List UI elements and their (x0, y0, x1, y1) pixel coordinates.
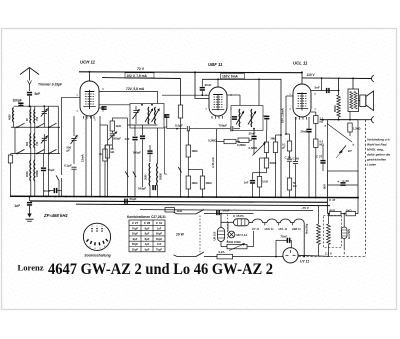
resistor R16 2k (346, 211, 356, 215)
wire OT bottom (349, 112, 351, 120)
svg-text:1kΩ: 1kΩ (116, 124, 122, 128)
svg-text:1kΩ: 1kΩ (177, 209, 183, 213)
switch bus 1 (11, 126, 60, 128)
svg-text:3k: 3k (99, 152, 103, 156)
resistor R7 1M (200, 176, 204, 189)
mech link dashed 2 (227, 215, 229, 244)
wire speaker magnet link (359, 100, 360, 102)
svg-text:30000: 30000 (160, 172, 163, 180)
wire right column b (357, 198, 359, 214)
svg-text:0,1μF: 0,1μF (64, 164, 72, 168)
component table (129, 220, 165, 252)
svg-text:Lorenz: Lorenz (18, 263, 44, 273)
svg-text:b: b (353, 143, 355, 147)
svg-text:pF: pF (67, 149, 71, 153)
wire avc link (188, 169, 202, 171)
svg-text:MΩ: MΩ (320, 142, 324, 146)
svg-text:80Ω: 80Ω (330, 208, 336, 212)
dashed option line (365, 120, 367, 257)
junction dots rails (45, 196, 47, 198)
switch contact S2b (133, 172, 136, 178)
switch mains top (196, 209, 204, 214)
wire detector verticals (176, 128, 178, 130)
wire grid connection (62, 96, 81, 98)
capacitor 1nF to ground (28, 195, 30, 197)
coil L2 ant sec (33, 110, 36, 124)
svg-text:1,2kΩ: 1,2kΩ (353, 127, 361, 131)
svg-text:UCH 11: UCH 11 (80, 60, 96, 65)
svg-text:300Ω: 300Ω (270, 161, 278, 165)
switch contact tone (340, 146, 346, 153)
trimmer arrow IF1a (145, 109, 153, 123)
svg-text:100pF: 100pF (13, 99, 22, 103)
svg-text:Linien: Linien (367, 163, 376, 167)
dashed bottom line (299, 255, 366, 257)
wire det col (216, 142, 218, 197)
switch blade S2a (17, 149, 25, 153)
coil L8 osc (148, 163, 151, 186)
dial lamp (228, 231, 235, 238)
svg-text:MV 0,1A: MV 0,1A (237, 233, 248, 237)
svg-text:Verbindung a-b: Verbindung a-b (367, 138, 390, 142)
svg-text:UCL 11: UCL 11 (293, 61, 308, 66)
bus rail B (30, 201, 328, 202)
capacitor padder (142, 125, 144, 135)
wire screen column UBF (180, 79, 182, 106)
fuse F1 (217, 254, 233, 259)
svg-text:600: 600 (26, 141, 29, 146)
svg-text:1MΩ: 1MΩ (206, 181, 213, 185)
switch blade S1c (49, 123, 57, 127)
svg-text:bei 220V: bei 220V (348, 229, 351, 239)
wire UBF plate right (227, 94, 240, 96)
svg-text:0,1M: 0,1M (262, 180, 268, 184)
svg-text:540pF: 540pF (133, 151, 141, 155)
wire 110V speaker line (302, 77, 372, 80)
resistor R20 grid stop (287, 141, 291, 151)
field coil choke (338, 78, 340, 95)
svg-text:750: 750 (36, 116, 39, 121)
svg-text:1nF: 1nF (15, 204, 21, 208)
wire heater left (228, 221, 234, 223)
svg-text:6μF: 6μF (145, 226, 150, 230)
svg-text:500pF: 500pF (113, 137, 121, 141)
rectifier tube UY11 circle (283, 248, 298, 263)
bus chassis rail A (10, 196, 358, 197)
svg-text:U 15 PL: U 15 PL (233, 214, 244, 218)
svg-text:kΩ: kΩ (293, 184, 297, 188)
capacitor 50uF rail (124, 199, 126, 204)
coil L5 band2 sec (33, 134, 36, 149)
svg-text:4647 GW-AZ 2 und Lo 46 GW-AZ 2: 4647 GW-AZ 2 und Lo 46 GW-AZ 2 (48, 259, 273, 278)
capacitor grid blob (99, 107, 104, 109)
tube UBF11 (209, 87, 227, 116)
heater chain humps (253, 219, 263, 223)
svg-text:18V, 1,6mA: 18V, 1,6mA (281, 108, 285, 123)
svg-text:gestrichelten: gestrichelten (366, 158, 386, 162)
svg-text:0,3MΩ: 0,3MΩ (237, 143, 246, 147)
switch blade S2c (49, 149, 57, 153)
wire IF2 feed (258, 79, 260, 105)
resistor R18 0.1M (257, 177, 261, 188)
trimmer arrow IF1b (152, 109, 160, 123)
svg-text:700pF: 700pF (219, 123, 228, 127)
antenna (20, 68, 39, 75)
wire right column mid (48, 127, 50, 153)
svg-text:1MΩ: 1MΩ (192, 149, 199, 153)
wire +72V supply rail (79, 71, 302, 74)
svg-text:1MΩ: 1MΩ (192, 181, 199, 185)
wire osc top (111, 118, 113, 121)
socket pins bottom (86, 239, 89, 242)
svg-text:C 28: C 28 (144, 221, 151, 225)
resistor R17 300 (264, 158, 268, 168)
switch blade S2b (37, 149, 45, 153)
IF transformer can 1 (130, 104, 164, 129)
wire plate supply UBF (202, 79, 281, 197)
svg-text:–75 V: –75 V (301, 206, 309, 210)
svg-text:70pF: 70pF (132, 226, 139, 230)
svg-text:8μF: 8μF (145, 237, 150, 241)
coil IF2 primary (238, 109, 241, 127)
svg-text:3000: 3000 (145, 174, 148, 180)
wire cathode 2 (91, 116, 93, 196)
coil IF1 primary (147, 107, 150, 124)
node 162V 6mA label (221, 74, 245, 79)
output transformer T1 (348, 89, 359, 112)
tube UCL11 (293, 84, 311, 117)
resistor R21 screen feed (178, 105, 182, 118)
lightning arrester (28, 81, 32, 85)
resistor R14 bias (165, 208, 175, 212)
svg-text:C 28: C 28 (285, 155, 292, 159)
svg-text:740: 740 (36, 141, 39, 146)
svg-text:Sockelschaltung: Sockelschaltung (84, 253, 110, 257)
wire screen to IF1 (99, 104, 130, 106)
wire UCL plate (311, 90, 339, 92)
svg-text:72 V: 72 V (137, 67, 145, 71)
resistor R5 1M (186, 145, 190, 157)
svg-text:240Ω 150Ω: 240Ω 150Ω (227, 240, 242, 244)
wire antenna branch stub (20, 102, 22, 106)
capacitor IF2 right blob (263, 115, 267, 117)
svg-text:dafür gelten die: dafür gelten die (367, 153, 390, 157)
svg-text:C 27: C 27 (132, 221, 139, 225)
wire right column top (48, 106, 50, 127)
wire 5nF drop (321, 78, 323, 90)
svg-text:UCL 11: UCL 11 (279, 227, 288, 231)
resistor R13 1.2k (348, 123, 352, 132)
wire UCH anode to IF1 (99, 92, 158, 104)
switch blade S1b (37, 123, 45, 127)
svg-text:12mA: 12mA (81, 154, 85, 162)
dropper oval 220V (342, 227, 348, 239)
trimmer arrow IF2a (236, 111, 244, 125)
svg-text:4,15 mA: 4,15 mA (211, 157, 215, 168)
resistor R3 osc (110, 121, 114, 131)
tube UCH11 (80, 81, 99, 116)
mains terminal bottom (177, 256, 196, 258)
wire left link (14, 127, 16, 153)
coil L6 band3 prim (29, 160, 32, 181)
wire osc verticals (127, 118, 129, 170)
switch link dashed (199, 216, 201, 256)
capacitor IF2 left blob (232, 116, 237, 118)
svg-text:50pF: 50pF (132, 242, 139, 246)
wire grid node (286, 133, 290, 135)
svg-text:+: + (337, 180, 339, 184)
resistor R15 80ohm (330, 211, 342, 215)
svg-text:2000: 2000 (26, 171, 29, 177)
svg-text:90V: 90V (323, 184, 327, 189)
resistor R19 2M (273, 142, 277, 153)
svg-text:6μF: 6μF (145, 248, 150, 252)
coil L1 ant prim (29, 110, 32, 124)
wire bottom audio line (320, 119, 372, 121)
switch contact S2a (125, 172, 128, 178)
wire heater right down (303, 223, 305, 257)
resistor R4 osc (103, 149, 107, 161)
wire down to chokes (318, 206, 320, 225)
svg-text:1nF: 1nF (244, 180, 249, 184)
svg-text:162V, 6mA: 162V, 6mA (222, 75, 239, 79)
wire mains bottom line (204, 256, 217, 258)
switch bus 2 (11, 153, 60, 155)
wire right of tube (99, 116, 101, 125)
coil IF2 secondary (250, 109, 253, 127)
svg-text:5nF: 5nF (315, 86, 321, 90)
socket diagram circle (83, 223, 110, 250)
svg-text:2kΩ: 2kΩ (346, 208, 352, 212)
wire AF link (253, 172, 267, 174)
coil L7 band3 sec (33, 160, 36, 181)
choke mains 1 (317, 224, 321, 245)
svg-text:9pF: 9pF (133, 237, 138, 241)
wire UCL grid (286, 95, 293, 97)
ground (26, 218, 34, 220)
svg-text:UBF 11: UBF 11 (208, 62, 223, 67)
coil L0 frame (12, 108, 15, 123)
svg-text:Trimmer 3-18pF: Trimmer 3-18pF (38, 83, 63, 87)
svg-text:29 W: 29 W (176, 232, 185, 236)
svg-text:0,5μF: 0,5μF (175, 123, 183, 127)
wire R1 branch to UBF (195, 72, 209, 98)
wire osc h (128, 124, 158, 126)
svg-text:70pF: 70pF (156, 248, 163, 252)
svg-text:UBF 11: UBF 11 (292, 227, 301, 231)
wire UCH plate to rail (89, 72, 91, 81)
resistor R1 left (10, 154, 12, 156)
svg-text:μF: μF (282, 146, 286, 150)
svg-text:110 V: 110 V (307, 73, 316, 77)
svg-text:4000: 4000 (9, 114, 12, 120)
coil L9 osc (156, 163, 159, 186)
node 102V 7.6mA label (125, 73, 154, 78)
trimmer capacitor 500pF osc (73, 116, 75, 136)
dropper UR150 (218, 228, 225, 242)
svg-text:102 V, 7,6 mA: 102 V, 7,6 mA (127, 74, 148, 78)
coil IF1 secondary (154, 107, 157, 124)
wire UBF top (217, 79, 219, 87)
svg-text:240pF: 240pF (138, 186, 146, 190)
heater taps (264, 223, 266, 226)
loudspeaker (360, 95, 366, 106)
svg-text:20nF: 20nF (301, 129, 308, 133)
wire grid line from IF1 (162, 94, 202, 96)
svg-text:50nF: 50nF (223, 209, 230, 213)
trimmer capacitor osc 500pF (110, 133, 115, 135)
resistor R12 0.4M (315, 124, 317, 140)
svg-text:Heiz.Wdg: Heiz.Wdg (307, 223, 309, 234)
capacitor IF1 right blob (164, 115, 167, 117)
resistor R6 1M (186, 176, 190, 189)
svg-text:0,2A: 0,2A (219, 250, 226, 254)
choke mains 2 optional (327, 224, 331, 245)
svg-text:0,3MΩ: 0,3MΩ (208, 139, 217, 143)
trimmer capacitor band1 (43, 106, 45, 111)
capacitor 5nF antenna (27, 92, 32, 94)
IF transformer can 2 (231, 106, 263, 131)
wire cathode 1 (85, 116, 87, 196)
svg-text:Kombinationen C27,28,31: Kombinationen C27,28,31 (127, 215, 166, 219)
svg-text:75nF: 75nF (281, 235, 288, 239)
trimmer capacitor band2 (42, 137, 47, 139)
wire far column (57, 106, 59, 127)
svg-text:900Ω: 900Ω (333, 105, 337, 112)
pointer line a-b (327, 124, 352, 143)
svg-text:ZF≈468 kHz: ZF≈468 kHz (43, 213, 68, 218)
wire mains top line (204, 213, 254, 215)
switch blade S2d (56, 175, 59, 180)
svg-text:50μF: 50μF (130, 197, 137, 201)
resistor R9 det load 2 (238, 138, 249, 142)
svg-text:– C 47: – C 47 (327, 198, 336, 202)
svg-text:30nF: 30nF (205, 83, 212, 87)
svg-text:20pF: 20pF (132, 248, 139, 252)
svg-text:C 27: C 27 (316, 155, 323, 159)
wire grid feed column (61, 97, 63, 175)
bracket switch link (164, 127, 166, 174)
svg-text:UY 11: UY 11 (252, 227, 260, 231)
feedback box (328, 120, 359, 171)
core line IF1 (157, 128, 159, 155)
capacitor 70pF (43, 154, 45, 168)
resistor R2 0.2M (99, 125, 101, 196)
svg-text:1nF: 1nF (125, 137, 130, 141)
wire antenna branch bus (14, 105, 49, 107)
svg-text:Wahl bei Rad.: Wahl bei Rad. (367, 143, 387, 147)
svg-text:18000: 18000 (36, 169, 39, 177)
svg-text:C 31: C 31 (156, 221, 163, 225)
svg-text:0,5MΩ: 0,5MΩ (249, 146, 258, 150)
svg-text:30pF: 30pF (156, 237, 163, 241)
switch contact S3 (178, 167, 181, 173)
svg-text:UY 11: UY 11 (300, 260, 309, 264)
switch mains bottom (196, 252, 204, 257)
socket pins top (91, 228, 93, 230)
wire supply drop OT (352, 78, 354, 89)
svg-text:1nF: 1nF (157, 242, 162, 246)
wire box bottom link (328, 184, 359, 186)
svg-text:UCH 11: UCH 11 (265, 227, 275, 231)
coil L4 band2 prim (29, 134, 32, 149)
svg-text:UR 150: UR 150 (213, 231, 217, 240)
resistor R11 screen 2.1k (311, 111, 316, 113)
volume potentiometer (264, 142, 268, 153)
mains terminal top (177, 213, 196, 215)
resistor R10 10M (287, 178, 291, 190)
wire screen supply rail 102V (102, 77, 181, 80)
svg-text:MAGL weg,: MAGL weg, (367, 148, 384, 152)
dashed option box (324, 216, 342, 248)
svg-text:72V, 5,8 mA: 72V, 5,8 mA (126, 87, 145, 91)
svg-text:25nF: 25nF (249, 131, 256, 135)
svg-text:8μF: 8μF (145, 232, 150, 236)
bus bias rail -75V (140, 210, 313, 211)
switch blade S1a (17, 123, 25, 127)
svg-text:30pF: 30pF (132, 232, 139, 236)
svg-text:5nF: 5nF (35, 92, 41, 96)
svg-text:50pF: 50pF (156, 232, 163, 236)
svg-text:4μF: 4μF (145, 242, 150, 246)
wire right column a (327, 202, 329, 213)
capacitor IF1 left (135, 106, 137, 110)
svg-text:1nF: 1nF (157, 226, 162, 230)
wire UCL top (301, 72, 303, 84)
trimmer arrow IF2b (248, 111, 256, 125)
bus rail C (76, 204, 330, 205)
capacitor 50nF mains (216, 210, 218, 215)
